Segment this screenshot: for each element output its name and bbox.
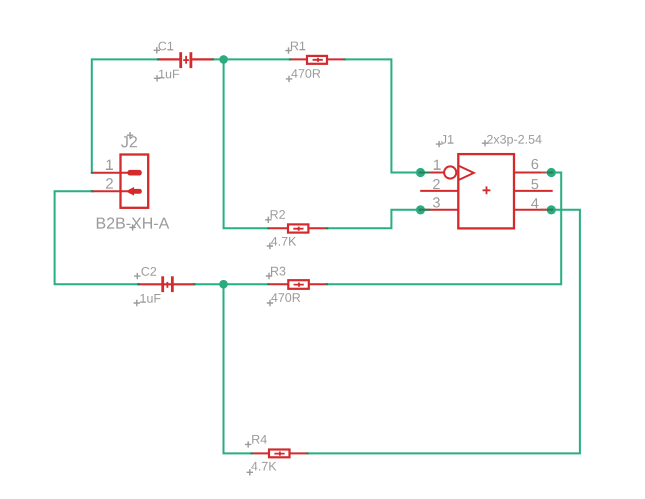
resistor R1 xyxy=(289,56,344,64)
junction node A dot xyxy=(219,55,228,64)
value 2x3p-2.54 (J1) xyxy=(482,135,542,147)
value 470R (R1) xyxy=(286,69,321,82)
value B2B-XH-A (J2) xyxy=(97,217,169,230)
J2 pin number 2 xyxy=(106,178,113,188)
resistor R3 xyxy=(269,280,327,289)
value 1uF (C1) xyxy=(154,70,179,82)
wire R2 right step up to J1 pin3 xyxy=(327,210,421,229)
J2 pin number 1 xyxy=(106,160,113,170)
connector J2 xyxy=(92,155,148,208)
dark overlap segments at wire/pin joints xyxy=(91,59,554,453)
label R4 xyxy=(245,435,267,448)
value 4.7K (R2) xyxy=(267,237,297,249)
wire J1 pin4 right down and left to R4 right xyxy=(307,210,580,454)
J1 pin number 6 xyxy=(532,159,539,169)
wire J2 pin1 up to top row and right to C1 xyxy=(92,59,158,173)
label C2 xyxy=(134,267,156,279)
wire R1 right over and down to J1 pin1 xyxy=(344,59,421,172)
label J1 xyxy=(436,135,454,147)
J1 pin number 5 xyxy=(531,179,538,189)
value 1uF (C2) xyxy=(134,294,161,306)
wire R3 right over and up to J1 pin6 xyxy=(327,173,561,285)
J1 pin number 4 xyxy=(531,198,538,208)
label R3 xyxy=(266,267,286,280)
J1 pin number 3 xyxy=(433,197,440,207)
label J2 xyxy=(121,132,137,147)
value 470R (R3) xyxy=(267,293,300,306)
pin connection dot J1 pin3 xyxy=(416,205,425,214)
value 4.7K (R4) xyxy=(247,462,277,476)
J1 pin 4 line xyxy=(514,209,551,211)
resistor R4 xyxy=(252,450,308,458)
pin connection dot J1 pin6 xyxy=(547,168,556,177)
reddish overlap left of pin6/pin4 dots xyxy=(541,173,547,210)
junction node B dot xyxy=(219,280,228,289)
J1 pin number 1 xyxy=(434,160,441,170)
J1 pin 6 line xyxy=(514,172,551,174)
J1 pin 3 line xyxy=(421,209,459,211)
label C1 xyxy=(154,42,174,54)
wire C1 right through node A to R1 left xyxy=(212,58,290,60)
wire node B down to R4 left xyxy=(224,284,253,453)
wire J2 pin2 left down to C2 left xyxy=(55,191,139,284)
label R2 xyxy=(265,210,285,223)
J2 pin 1 xyxy=(92,172,128,174)
wire C2 right through node B to R3 left xyxy=(193,283,269,285)
pin connection dot J1 pin4 xyxy=(547,205,556,214)
label R1 xyxy=(285,42,305,54)
capacitor C1 xyxy=(157,52,213,68)
J2 pin 2 xyxy=(92,190,128,192)
J1 pin 5 line xyxy=(514,190,553,192)
J1 pin number 2 xyxy=(433,179,440,189)
capacitor C2 xyxy=(138,276,195,292)
J1 origin cross xyxy=(483,186,491,194)
pin connection dot J1 pin1 xyxy=(416,168,425,177)
wire node A down to R2 left xyxy=(224,59,269,228)
connector J1 xyxy=(420,154,553,228)
J1 pin 1 line and bubble-triangle xyxy=(421,172,445,174)
J1 pin 2 line xyxy=(420,190,458,192)
resistor R2 xyxy=(269,224,327,232)
